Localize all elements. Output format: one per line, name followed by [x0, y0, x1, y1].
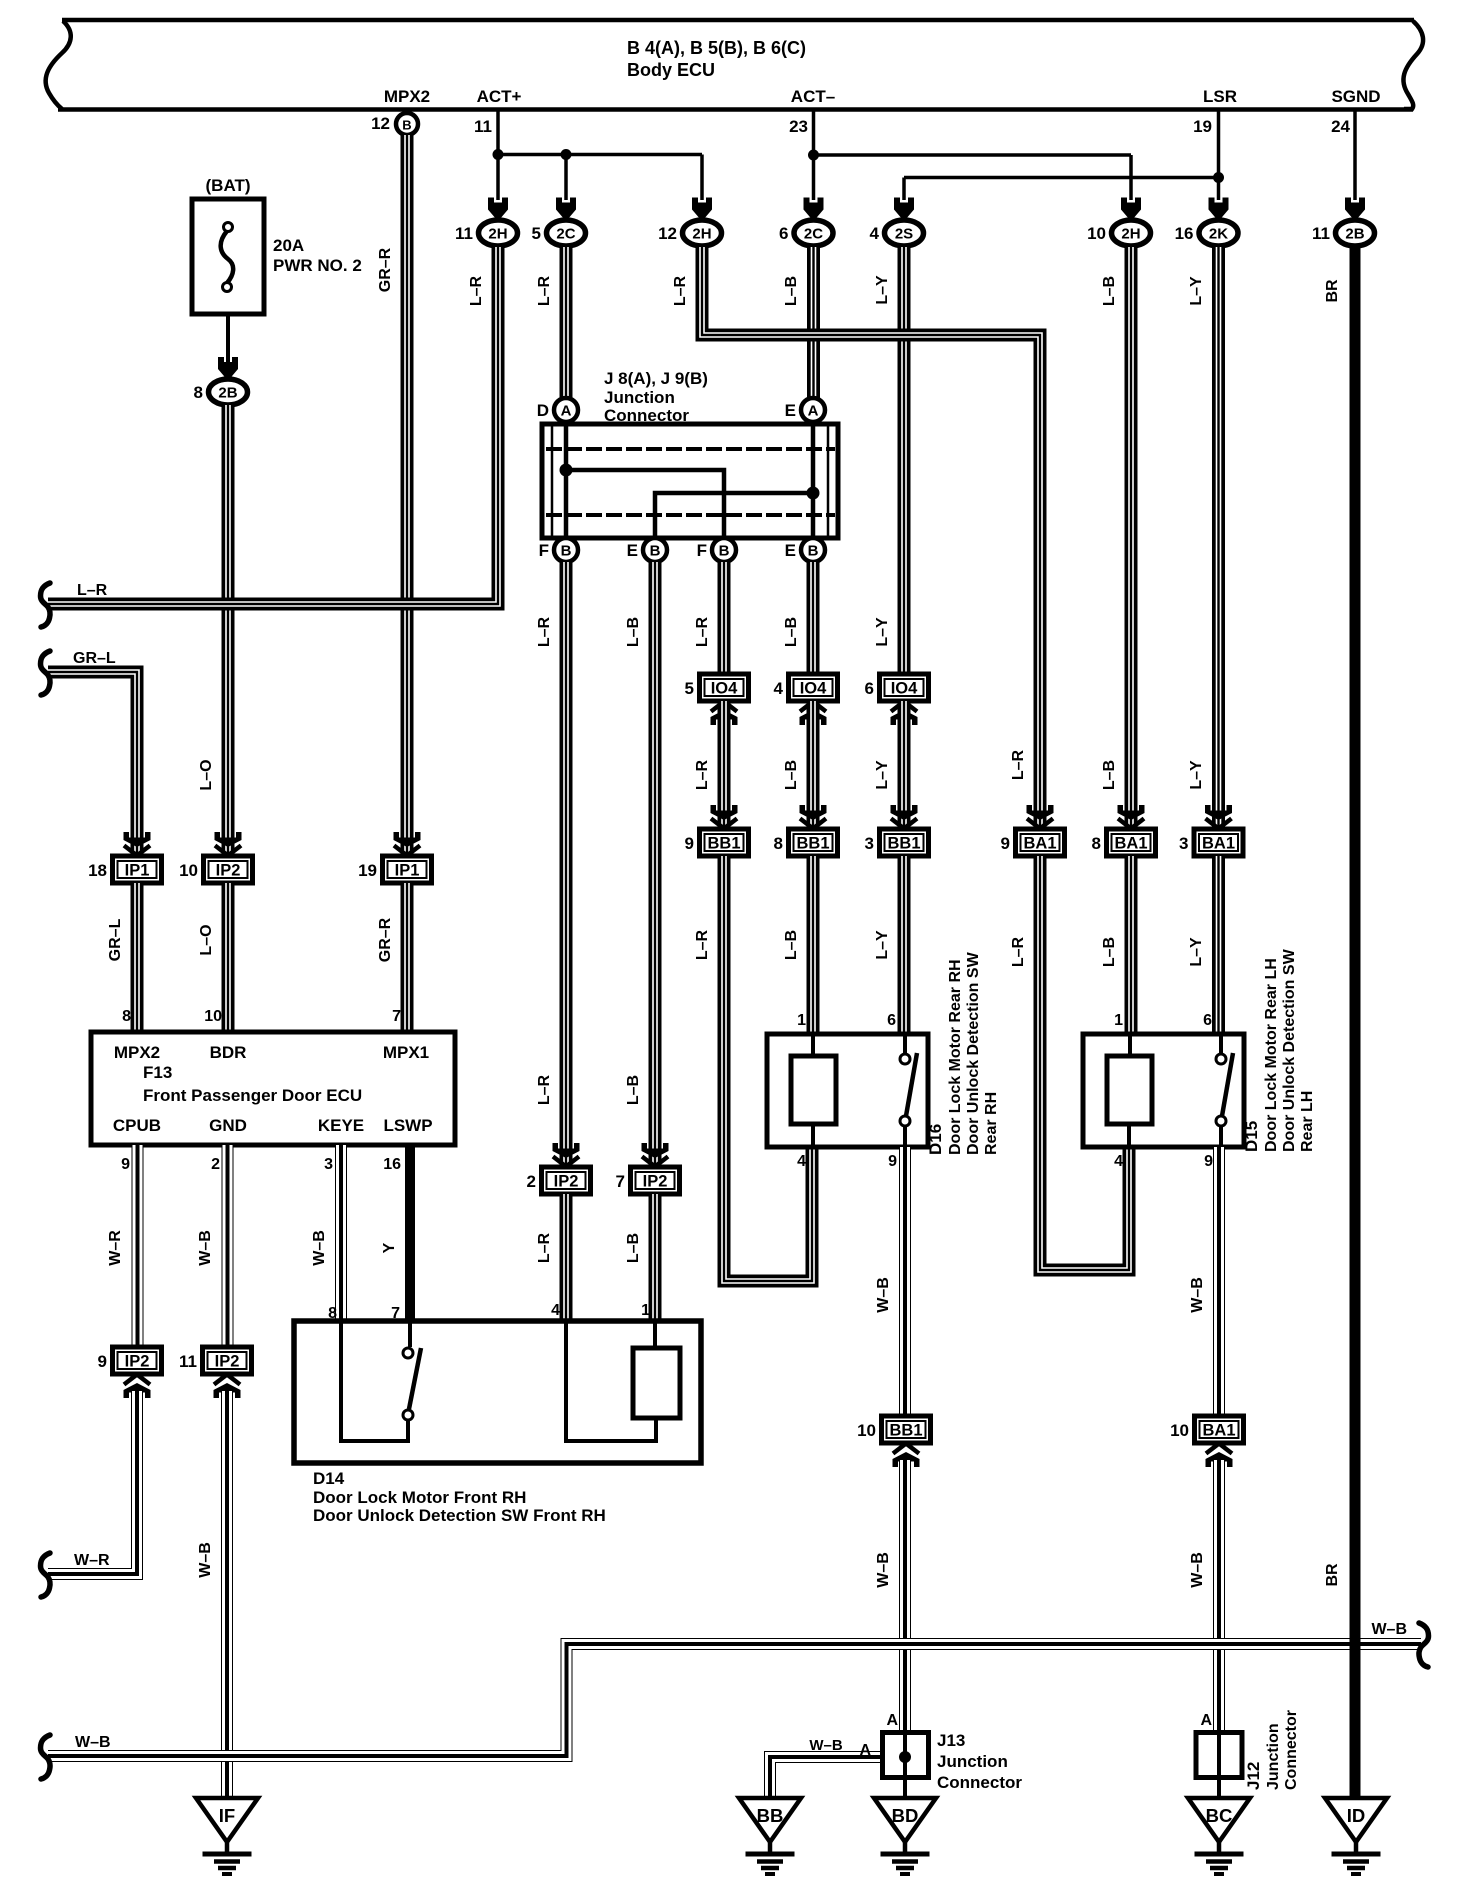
terminal F B — [539, 538, 578, 562]
wire L-R 12 2H to 9 BA1 — [702, 247, 1040, 851]
arrow into connector 2B — [218, 357, 238, 379]
connector 3 BB1 — [865, 829, 929, 856]
svg-text:6: 6 — [887, 1012, 896, 1029]
arrow into 2 IP2 — [553, 1143, 580, 1167]
svg-text:F13: F13 — [143, 1063, 172, 1082]
svg-text:IO4: IO4 — [891, 680, 918, 698]
connector 6 2C — [779, 220, 833, 246]
arrow out of 11 IP2 — [214, 1375, 241, 1399]
arrow into connector — [894, 198, 914, 220]
svg-text:Rear LH: Rear LH — [1299, 1091, 1316, 1152]
svg-text:8: 8 — [774, 834, 783, 853]
wire W-B ground bus — [48, 1644, 1421, 1756]
arrow into connector — [215, 832, 242, 856]
ground ID — [1325, 1798, 1387, 1874]
connector 11 2H — [455, 220, 517, 246]
svg-text:BA1: BA1 — [1202, 835, 1235, 853]
wire L-R from 11 2H to page edge — [48, 247, 498, 604]
wire D16 pin6 to switch — [903, 1034, 907, 1053]
svg-text:MPX2: MPX2 — [114, 1043, 160, 1062]
svg-text:L–R: L–R — [536, 1232, 553, 1263]
wire ACT+ feeder — [496, 109, 500, 200]
svg-text:BR: BR — [1324, 1563, 1341, 1587]
svg-text:L–B: L–B — [625, 1075, 642, 1105]
wire W-R CPUB to 9 IP2 — [132, 1145, 144, 1346]
svg-text:9: 9 — [685, 834, 694, 853]
svg-text:IP2: IP2 — [215, 1353, 240, 1371]
svg-text:9: 9 — [1001, 834, 1010, 853]
node ACT+ junction — [493, 149, 504, 160]
terminal E B — [627, 538, 667, 562]
svg-text:2C: 2C — [804, 226, 823, 243]
wire W-B 11 IP2 to ground IF — [221, 1391, 233, 1798]
svg-text:KEYE: KEYE — [318, 1116, 364, 1135]
wire L-O 8 2B to 10 IP2 — [222, 405, 235, 853]
svg-text:GR–L: GR–L — [107, 918, 124, 961]
svg-text:Door Lock Motor Rear RH: Door Lock Motor Rear RH — [947, 959, 964, 1155]
svg-text:Door Lock Motor Front RH: Door Lock Motor Front RH — [313, 1488, 526, 1507]
svg-text:ACT+: ACT+ — [477, 87, 522, 106]
svg-text:11: 11 — [474, 117, 492, 136]
wire L-Y IO4 to BB1 — [898, 701, 911, 826]
wire J13 to ground BD — [903, 1734, 907, 1798]
svg-text:10: 10 — [1170, 1421, 1189, 1440]
svg-text:B: B — [719, 543, 730, 560]
svg-text:L–B: L–B — [783, 760, 800, 790]
connector 18 IP1 — [88, 856, 161, 883]
connector 7 IP2 — [616, 1167, 680, 1194]
svg-text:L–R: L–R — [672, 275, 689, 306]
wire L-Y 2S to 6 IO4 — [898, 247, 911, 674]
svg-text:4: 4 — [870, 224, 880, 243]
svg-text:L–Y: L–Y — [874, 760, 891, 790]
wire L-R IO4 to BB1 — [718, 701, 731, 826]
svg-text:2B: 2B — [1345, 226, 1364, 243]
svg-text:E: E — [627, 541, 638, 560]
wire W-B to J12 — [1213, 1460, 1225, 1756]
svg-text:L–R: L–R — [694, 616, 711, 647]
page continuation W-R — [41, 1553, 51, 1597]
svg-text:W–B: W–B — [809, 1737, 843, 1754]
svg-text:4: 4 — [1114, 1153, 1123, 1170]
svg-text:12: 12 — [658, 224, 677, 243]
junction connector J13 — [883, 1731, 1023, 1792]
motor winding D14 — [633, 1348, 680, 1418]
svg-text:16: 16 — [383, 1156, 401, 1173]
connector 16 2K — [1175, 220, 1238, 246]
svg-text:19: 19 — [1193, 117, 1212, 136]
node JC junction — [807, 487, 820, 500]
svg-text:SGND: SGND — [1331, 87, 1380, 106]
svg-text:6: 6 — [865, 679, 874, 698]
wire D14 pin7 to switch — [408, 1321, 412, 1347]
svg-text:4: 4 — [551, 1302, 560, 1319]
svg-text:Door Unlock Detection SW Front: Door Unlock Detection SW Front RH — [313, 1506, 606, 1525]
svg-text:24: 24 — [1331, 117, 1350, 136]
ground BC — [1188, 1798, 1250, 1874]
svg-text:8: 8 — [194, 383, 203, 402]
svg-text:4: 4 — [774, 679, 784, 698]
svg-text:BDR: BDR — [210, 1043, 247, 1062]
svg-text:Door Unlock Detection SW: Door Unlock Detection SW — [1281, 948, 1298, 1152]
svg-text:W–B: W–B — [311, 1230, 328, 1266]
svg-text:10: 10 — [179, 861, 198, 880]
connector 9 IP2 — [98, 1347, 162, 1374]
arrow into connector — [692, 198, 712, 220]
svg-text:W–B: W–B — [75, 1734, 111, 1751]
svg-text:IP1: IP1 — [395, 862, 420, 880]
svg-text:2H: 2H — [1121, 226, 1140, 243]
wire ACT- feeder — [812, 109, 816, 200]
svg-text:11: 11 — [179, 1352, 197, 1371]
svg-text:L–Y: L–Y — [1188, 937, 1205, 967]
svg-text:9: 9 — [121, 1156, 130, 1173]
node LSR junction — [1213, 172, 1224, 183]
svg-text:F: F — [697, 541, 707, 560]
arrow out of IO4 — [711, 702, 738, 726]
connector 6 IO4 — [865, 674, 929, 701]
svg-text:L–R: L–R — [1010, 749, 1027, 780]
wire D16 pin1 to motor — [811, 1034, 815, 1057]
svg-text:J12: J12 — [1244, 1762, 1263, 1790]
svg-text:W–B: W–B — [1371, 1621, 1407, 1638]
svg-text:L–R: L–R — [536, 1074, 553, 1105]
svg-text:L–Y: L–Y — [1188, 276, 1205, 306]
connector 19 IP1 — [358, 856, 431, 883]
page continuation W-B — [41, 1735, 51, 1779]
svg-text:W–B: W–B — [197, 1542, 214, 1578]
wire BR SGND to ground ID — [1350, 248, 1361, 1798]
svg-text:L–B: L–B — [1101, 760, 1118, 790]
connector 10 2H — [1087, 220, 1150, 246]
wire MPX2 stub — [405, 109, 409, 114]
svg-text:A: A — [859, 1742, 871, 1759]
svg-text:2: 2 — [527, 1172, 536, 1191]
ground IF — [196, 1798, 258, 1874]
wire L-B 7 IP2 to D14 pin 1 — [649, 1194, 662, 1321]
svg-text:B: B — [561, 543, 572, 560]
wire D15 motor to pin4 — [1127, 1124, 1131, 1147]
wire L-B JC to 7 IP2 — [649, 562, 662, 1164]
svg-text:E: E — [785, 541, 796, 560]
connector 5 2C — [532, 220, 586, 246]
ground BD — [874, 1798, 936, 1874]
svg-text:L–B: L–B — [783, 930, 800, 960]
svg-text:GR–L: GR–L — [73, 650, 116, 667]
svg-text:L–B: L–B — [783, 276, 800, 306]
svg-text:5: 5 — [685, 679, 694, 698]
wire L-R to junction connector D-A — [560, 247, 573, 399]
wire W-B ground BB branch — [770, 1757, 884, 1798]
terminal D A — [537, 398, 578, 422]
svg-text:9: 9 — [1204, 1153, 1213, 1170]
connector 8 BA1 — [1092, 829, 1156, 856]
svg-text:D14: D14 — [313, 1469, 345, 1488]
svg-text:1: 1 — [1114, 1012, 1123, 1029]
connector 8 BB1 — [774, 829, 838, 856]
node ACT- junction — [808, 150, 819, 161]
wire L-Y 3 BA1 to D15 pin 6 — [1212, 856, 1225, 1032]
svg-text:5: 5 — [532, 224, 541, 243]
svg-text:(BAT): (BAT) — [206, 176, 251, 195]
svg-text:2C: 2C — [556, 226, 575, 243]
svg-text:BA1: BA1 — [1114, 835, 1147, 853]
arrow into connector — [711, 805, 738, 829]
svg-text:B: B — [402, 118, 411, 133]
svg-text:Connector: Connector — [1283, 1710, 1300, 1790]
label D15 — [1242, 948, 1316, 1152]
wire D14 pin1 to motor — [653, 1321, 657, 1349]
svg-text:IP2: IP2 — [554, 1173, 579, 1191]
arrow out of 9 IP2 — [124, 1375, 151, 1399]
arrow into connector — [488, 198, 508, 220]
wire ACT+ branch horizontal — [498, 153, 702, 157]
svg-text:CPUB: CPUB — [113, 1116, 161, 1135]
svg-text:PWR NO. 2: PWR NO. 2 — [273, 256, 362, 275]
svg-text:11: 11 — [455, 224, 473, 243]
wire W-R 9 IP2 to page edge — [48, 1391, 137, 1574]
wire GR-L IP1 to F13 — [131, 883, 144, 1032]
wire L-B to junction connector E-A — [807, 247, 820, 399]
wire D16 motor to pin4 — [811, 1124, 815, 1147]
svg-text:L–R: L–R — [536, 275, 553, 306]
motor winding D15 — [1107, 1056, 1152, 1124]
page continuation GR-L — [41, 651, 51, 695]
svg-text:IP2: IP2 — [643, 1173, 668, 1191]
svg-text:W–B: W–B — [1189, 1277, 1206, 1313]
svg-text:8: 8 — [1092, 834, 1101, 853]
svg-text:MPX1: MPX1 — [383, 1043, 429, 1062]
wire D14 pin4 to motor — [566, 1321, 656, 1441]
wire L-Y 3 BB1 to D16 pin 6 — [898, 856, 911, 1032]
wire branch to 10 2H — [1129, 155, 1133, 200]
svg-text:W–B: W–B — [875, 1552, 892, 1588]
svg-text:Door Unlock Detection SW: Door Unlock Detection SW — [965, 951, 982, 1155]
wire L-R 9 BA1 loop to D15 pin 4 — [1040, 856, 1129, 1270]
svg-text:B: B — [808, 543, 819, 560]
arrow into connector — [1027, 805, 1054, 829]
wire L-B IO4 to BB1 — [807, 701, 820, 826]
svg-text:ACT–: ACT– — [791, 87, 835, 106]
wire Y LSWP to D14 pin 7 — [405, 1145, 415, 1321]
wire JC internal branch to F-B — [566, 470, 724, 538]
wire JC internal D-A to F-B — [564, 424, 569, 538]
svg-text:2B: 2B — [218, 385, 237, 402]
svg-text:IO4: IO4 — [800, 680, 827, 698]
page continuation W-B right — [1419, 1623, 1429, 1667]
arrow into connector — [556, 198, 576, 220]
svg-text:W–B: W–B — [197, 1230, 214, 1266]
arrow into connector — [1205, 805, 1232, 829]
svg-text:F: F — [539, 541, 549, 560]
svg-text:BC: BC — [1206, 1805, 1233, 1826]
ground BB — [739, 1798, 801, 1874]
door lock motor D15 Rear LH — [1083, 1034, 1244, 1147]
svg-text:GND: GND — [209, 1116, 247, 1135]
svg-text:IP2: IP2 — [216, 862, 241, 880]
svg-text:W–B: W–B — [875, 1277, 892, 1313]
svg-text:L–Y: L–Y — [874, 617, 891, 647]
arrow into connector — [1345, 198, 1365, 220]
svg-text:2: 2 — [211, 1156, 220, 1173]
svg-text:BA1: BA1 — [1023, 835, 1056, 853]
arrow into connector — [1209, 198, 1229, 220]
svg-text:10: 10 — [857, 1421, 876, 1440]
wire W-B to J13 — [899, 1460, 911, 1756]
wire LSR branch horizontal — [904, 176, 1219, 180]
label D16 — [926, 951, 1000, 1155]
arrow out of 10 BA1 — [1206, 1444, 1233, 1468]
svg-text:19: 19 — [358, 861, 377, 880]
svg-text:20A: 20A — [273, 236, 304, 255]
svg-text:8: 8 — [122, 1008, 131, 1025]
svg-text:A: A — [808, 403, 819, 420]
svg-text:7: 7 — [392, 1008, 401, 1025]
switch D14 door unlock detection — [403, 1348, 421, 1420]
svg-text:Junction: Junction — [937, 1752, 1008, 1771]
wire GR-R IP1 to F13 — [401, 883, 414, 1032]
svg-text:23: 23 — [789, 117, 808, 136]
svg-text:12: 12 — [371, 114, 390, 133]
svg-text:1: 1 — [641, 1302, 650, 1319]
connector 12 B (MPX2) — [396, 113, 418, 135]
svg-text:3: 3 — [1179, 834, 1188, 853]
svg-text:L–B: L–B — [1101, 937, 1118, 967]
svg-text:L–B: L–B — [1101, 276, 1118, 306]
svg-text:4: 4 — [797, 1153, 806, 1170]
wire J12 to ground BC — [1217, 1734, 1221, 1798]
wire branch to 12 2H — [700, 155, 704, 201]
svg-text:BB1: BB1 — [889, 1422, 922, 1440]
door lock motor D16 Rear RH — [767, 1034, 928, 1147]
svg-text:2H: 2H — [488, 226, 507, 243]
junction connector J8(A) J9(B) — [542, 369, 838, 538]
svg-text:9: 9 — [888, 1153, 897, 1170]
svg-text:9: 9 — [98, 1352, 107, 1371]
terminal E B — [785, 538, 825, 562]
svg-text:L–Y: L–Y — [1188, 760, 1205, 790]
arrow into connector — [804, 198, 824, 220]
connector 12 2H — [658, 220, 721, 246]
connector 5 IO4 — [685, 674, 749, 701]
svg-text:B: B — [650, 543, 661, 560]
svg-text:L–B: L–B — [625, 617, 642, 647]
svg-text:IP1: IP1 — [125, 862, 150, 880]
svg-text:Front Passenger Door ECU: Front Passenger Door ECU — [143, 1086, 362, 1105]
svg-text:Y: Y — [381, 1242, 398, 1253]
svg-text:GR–R: GR–R — [377, 247, 394, 292]
svg-text:B 4(A), B 5(B), B 6(C): B 4(A), B 5(B), B 6(C) — [627, 38, 806, 58]
connector 4 2S — [870, 220, 924, 246]
svg-text:D: D — [537, 401, 549, 420]
svg-text:L–R: L–R — [694, 929, 711, 960]
svg-text:L–R: L–R — [694, 759, 711, 790]
wire L-R JC to 5 IO4 — [718, 562, 731, 674]
switch D15 door unlock detection — [1216, 1053, 1233, 1126]
svg-text:L–B: L–B — [625, 1233, 642, 1263]
svg-text:3: 3 — [865, 834, 874, 853]
wire JC internal branch to E-B — [655, 493, 813, 538]
connector 4 IO4 — [774, 674, 838, 701]
connector 2 IP2 — [527, 1167, 591, 1194]
connector 10 BB1 — [857, 1416, 930, 1443]
Body ECU connector band B4(A) B5(B) B6(C) — [46, 20, 1423, 110]
wire SGND feeder — [1353, 109, 1357, 200]
svg-text:LSWP: LSWP — [383, 1116, 432, 1135]
svg-text:2K: 2K — [1209, 226, 1228, 243]
svg-text:1: 1 — [797, 1012, 806, 1029]
connector 10 IP2 — [179, 856, 252, 883]
svg-text:IF: IF — [219, 1805, 235, 1826]
wire D15 switch to pin9 — [1219, 1126, 1223, 1147]
arrow into connector — [1121, 198, 1141, 220]
svg-text:BA1: BA1 — [1202, 1422, 1235, 1440]
svg-text:GR–R: GR–R — [377, 917, 394, 962]
ECU F13 Front Passenger Door — [91, 1032, 455, 1145]
wire D15 pin1 to motor — [1128, 1034, 1132, 1057]
arrow into connector — [800, 805, 827, 829]
svg-text:BB1: BB1 — [887, 835, 920, 853]
svg-text:E: E — [785, 401, 796, 420]
svg-text:2S: 2S — [895, 226, 913, 243]
arrow into 7 IP2 — [642, 1143, 669, 1167]
svg-text:L–B: L–B — [783, 617, 800, 647]
wire L-Y 16 2K to 3 BA1 — [1212, 247, 1225, 851]
svg-text:7: 7 — [616, 1172, 625, 1191]
svg-text:Rear RH: Rear RH — [983, 1092, 1000, 1155]
node branch junction — [561, 149, 572, 160]
connector 9 BA1 — [1001, 829, 1065, 856]
svg-text:L–Y: L–Y — [874, 930, 891, 960]
svg-text:LSR: LSR — [1203, 87, 1237, 106]
wire fuse to 2B — [226, 314, 230, 378]
arrow into connector — [394, 832, 421, 856]
svg-text:IO4: IO4 — [711, 680, 738, 698]
svg-text:ID: ID — [1347, 1805, 1366, 1826]
svg-text:L–R: L–R — [1010, 936, 1027, 967]
arrow out of IO4 — [891, 702, 918, 726]
svg-text:BB: BB — [757, 1805, 784, 1826]
svg-text:J13: J13 — [937, 1731, 965, 1750]
svg-text:BR: BR — [1324, 279, 1341, 303]
wire branch to 5 2C — [564, 155, 568, 201]
wire D16 switch to pin9 — [903, 1126, 907, 1147]
svg-text:Body ECU: Body ECU — [627, 60, 715, 80]
wire D15 pin6 to switch — [1219, 1034, 1223, 1053]
connector 3 BA1 — [1179, 829, 1243, 856]
svg-text:Connector: Connector — [937, 1773, 1022, 1792]
wire W-B KEYE to D14 pin 8 — [335, 1145, 347, 1321]
svg-text:MPX2: MPX2 — [384, 87, 430, 106]
svg-text:A: A — [561, 403, 572, 420]
wire W-B D16 pin9 to 10 BB1 — [899, 1147, 911, 1414]
motor winding D16 — [791, 1056, 836, 1124]
svg-text:Junction: Junction — [1265, 1723, 1282, 1790]
terminal E A — [785, 398, 825, 422]
node JC junction — [560, 464, 573, 477]
svg-text:J 8(A), J 9(B): J 8(A), J 9(B) — [604, 369, 708, 388]
connector 8 2B — [194, 379, 248, 405]
wire W-B D15 pin9 to 10 BA1 — [1213, 1147, 1225, 1414]
svg-text:Door Lock Motor Rear LH: Door Lock Motor Rear LH — [1263, 958, 1280, 1152]
svg-text:D16: D16 — [926, 1124, 945, 1155]
svg-text:IP2: IP2 — [125, 1353, 150, 1371]
arrow into connector — [891, 805, 918, 829]
wire L-B JC to 4 IO4 — [807, 562, 820, 674]
wire JC internal E-A to E-B — [811, 424, 816, 538]
svg-text:W–R: W–R — [107, 1230, 124, 1266]
wire L-B 8 BB1 to D16 pin 1 — [807, 856, 820, 1032]
